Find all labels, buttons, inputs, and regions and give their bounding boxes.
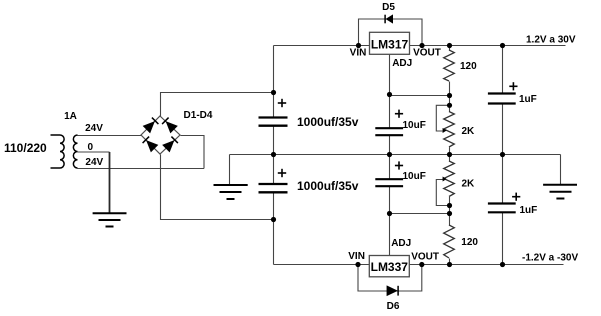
wire secondary top 24V to bridge left — [78, 135, 142, 137]
capacitor C1 1000uf/35v (top) — [259, 118, 288, 126]
wire 1uF column bottom — [502, 155, 504, 204]
wire pot P1 wiper bracket — [436, 105, 449, 131]
C2 plus sign — [278, 169, 286, 177]
wire bottom rail -V — [274, 264, 564, 266]
wire pot section leads — [449, 148, 451, 162]
svg-text:D5: D5 — [382, 2, 395, 13]
regulator U1 LM317 — [370, 32, 410, 54]
node C5/C6 0V — [500, 152, 505, 157]
P2 wiper arrowhead — [443, 177, 447, 182]
capacitor C2 1000uf/35v (bottom) — [259, 184, 288, 192]
node U2 VOUT — [419, 262, 424, 267]
wire D5 bypass loop — [359, 19, 423, 46]
svg-text:1.2V a 30V: 1.2V a 30V — [526, 35, 576, 46]
svg-text:1uF: 1uF — [520, 205, 538, 216]
resistor R1 120 (top) — [444, 50, 455, 81]
wire center tap to ground — [109, 152, 111, 213]
transformer T1 secondary winding (center tapped) — [73, 135, 77, 168]
svg-text:1000uf/35v: 1000uf/35v — [297, 179, 359, 193]
diode D6 — [387, 286, 398, 296]
diode D4 (upper-right arm) — [162, 117, 177, 132]
junction node dots — [271, 43, 505, 267]
svg-text:VOUT: VOUT — [411, 252, 439, 263]
node cap rail bottom — [271, 217, 276, 222]
svg-text:10uF: 10uF — [403, 120, 426, 131]
wire bridge right corner to bottom 24V — [181, 136, 205, 169]
C6 plus sign — [512, 193, 520, 201]
node U2 VIN — [355, 262, 360, 267]
capacitor C6 1uF (bottom) — [488, 204, 516, 213]
wire right ground branch — [560, 155, 562, 186]
node C6 bottom rail — [500, 262, 505, 267]
wire top rail +V — [274, 45, 566, 47]
wire pot P2 wiper bracket — [436, 180, 449, 206]
P1 wiper arrowhead — [443, 128, 447, 133]
svg-text:10uF: 10uF — [403, 171, 426, 182]
potentiometer P1 2K (top) — [444, 112, 455, 148]
wire mid 0V rail — [230, 154, 561, 156]
ground (right) — [543, 185, 577, 199]
svg-text:2K: 2K — [462, 126, 476, 137]
svg-text:ADJ: ADJ — [392, 58, 412, 69]
node bridge+ to cap rail — [271, 90, 276, 95]
C4 plus sign — [395, 161, 403, 169]
node cap rail at 0V — [271, 152, 276, 157]
transformer T1 primary winding — [51, 135, 65, 168]
wire secondary bottom 24V — [78, 168, 205, 170]
C1 plus sign — [278, 99, 286, 107]
node U1 ADJ junction — [387, 92, 392, 97]
resistor R2 120 (bottom) — [444, 225, 455, 258]
wire 1uF column top — [502, 46, 504, 94]
diode D1 (lower-left arm) — [142, 136, 157, 151]
svg-text:-1.2V a -30V: -1.2V a -30V — [522, 253, 578, 264]
wire ADJ to resistor junction top — [390, 95, 450, 97]
wire left cap column upper — [273, 46, 275, 118]
svg-text:120: 120 — [460, 61, 477, 72]
wire LM337 ADJ up — [389, 214, 391, 257]
svg-text:LM337: LM337 — [371, 260, 409, 274]
wire D6 bypass loop — [358, 265, 422, 292]
svg-text:D6: D6 — [387, 301, 400, 312]
svg-text:VIN: VIN — [348, 251, 365, 262]
capacitor C3 10uF (top) — [375, 128, 403, 135]
diode D5 — [385, 15, 393, 24]
diode D2 (lower-right arm) — [163, 136, 178, 151]
C3 plus sign — [395, 110, 403, 118]
wire bridge bottom corner to negative rail — [161, 155, 274, 220]
wire 120 bottom lead — [449, 259, 451, 265]
svg-text:24V: 24V — [85, 123, 103, 134]
node P2/R2 junction — [447, 211, 452, 216]
svg-text:1000uf/35v: 1000uf/35v — [297, 115, 359, 129]
wire mid column 10uF bottom — [389, 187, 391, 214]
wire 120 top leads — [449, 46, 451, 51]
wire LM317 ADJ down — [389, 55, 391, 96]
capacitor C5 1uF (top) — [488, 94, 516, 104]
svg-text:0: 0 — [88, 142, 94, 153]
svg-text:1A: 1A — [64, 111, 77, 122]
wire bridge top corner to positive cap rail — [161, 93, 274, 117]
C5 plus sign — [509, 82, 517, 90]
svg-text:110/220: 110/220 — [4, 141, 47, 155]
ground (left, 0V rail) — [214, 185, 248, 199]
node U2 ADJ junction — [387, 211, 392, 216]
node mid column 0V — [387, 152, 392, 157]
wire left cap column middle — [273, 127, 275, 185]
wire mid column 10uF top — [389, 96, 391, 129]
ground (transformer center tap) — [93, 213, 127, 226]
diode D3 (upper-left arm) — [143, 117, 158, 132]
regulator U2 LM337 — [369, 256, 409, 277]
svg-text:LM317: LM317 — [371, 38, 409, 52]
wire secondary center tap — [78, 151, 110, 153]
svg-text:1uF: 1uF — [519, 94, 537, 105]
node U1 VIN — [356, 43, 361, 48]
bridge rectifier D1-D4 diamond — [141, 116, 180, 154]
svg-text:2K: 2K — [462, 179, 476, 190]
node R1/P1 junction — [447, 93, 452, 98]
svg-text:120: 120 — [461, 237, 478, 248]
wire ADJ to resistor junction bottom — [390, 213, 450, 215]
wire left cap column lower — [273, 193, 275, 265]
wire left ground stem — [229, 155, 231, 186]
svg-text:VIN: VIN — [350, 48, 367, 59]
node C5 top rail — [500, 43, 505, 48]
node pots 0V — [447, 152, 452, 157]
svg-text:24V: 24V — [85, 157, 103, 168]
svg-text:D1-D4: D1-D4 — [184, 110, 213, 121]
potentiometer P2 2K (bottom) — [444, 161, 455, 197]
node R1 top rail — [447, 43, 452, 48]
capacitor C4 10uF (bottom) — [375, 179, 403, 186]
wire mid column between — [389, 136, 391, 180]
node P2 bracket junction — [447, 203, 452, 208]
node U1 VOUT — [419, 43, 424, 48]
node P1 bracket junction — [447, 103, 452, 108]
node R2 bottom rail — [447, 262, 452, 267]
svg-text:ADJ: ADJ — [391, 238, 411, 249]
svg-text:VOUT: VOUT — [413, 48, 441, 59]
